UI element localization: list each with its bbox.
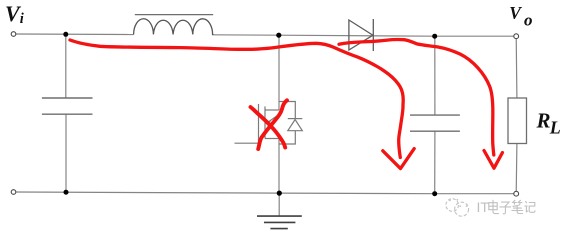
svg-text:V: V (509, 3, 522, 23)
wire output cap branch top (434, 36, 436, 115)
transistor Q1 MOSFET source lead (278, 139, 280, 194)
wire input cap branch top (65, 34, 67, 98)
wire bottom rail (16, 192, 514, 194)
red current path from input (70, 40, 403, 158)
junction bottom-left (64, 190, 69, 195)
red arrowhead into output capacitor (383, 149, 414, 169)
watermark glyph 子 (500, 202, 511, 214)
wire input cap branch bottom (65, 114, 67, 192)
transistor Q1 MOSFET drain lead (278, 35, 280, 110)
node bottom-right terminal (514, 191, 519, 196)
node Vo terminal (514, 34, 519, 39)
watermark glyph 电 (489, 200, 499, 213)
svg-text:i: i (20, 11, 24, 27)
red X stroke 2 over MOSFET (251, 107, 286, 148)
red arrowhead into load (484, 151, 502, 169)
junction drain (276, 33, 281, 38)
junction top-left (63, 32, 68, 37)
red current path to load (339, 39, 494, 155)
diode D1 (349, 19, 373, 51)
capacitor C2 output (410, 115, 460, 131)
inductor L1 (134, 15, 214, 35)
watermark glyph 记 (525, 202, 535, 213)
transistor Q1 MOSFET body (235, 104, 280, 143)
wire top rail (16, 33, 134, 36)
red X stroke 1 over MOSFET (258, 100, 287, 149)
junction bottom-right (432, 191, 437, 196)
svg-text:IT: IT (477, 199, 490, 215)
svg-text:o: o (524, 10, 533, 29)
wire RL branch bottom (515, 144, 518, 194)
capacitor C1 input (42, 98, 93, 114)
resistor RL (508, 98, 527, 144)
junction top-right (432, 34, 437, 39)
svg-text:L: L (549, 118, 561, 138)
watermark glyph 笔 (512, 200, 523, 213)
svg-text:R: R (536, 109, 551, 133)
watermark logo (446, 199, 469, 217)
wire top rail right of inductor (214, 35, 514, 36)
wire RL branch top (515, 36, 518, 98)
junction ground (277, 191, 282, 196)
ground (257, 193, 302, 229)
node bottom-left terminal (11, 190, 16, 195)
transistor Q1 body-diode branch (279, 102, 302, 145)
wire output cap branch bottom (434, 131, 436, 194)
node top-left terminal (11, 32, 16, 37)
